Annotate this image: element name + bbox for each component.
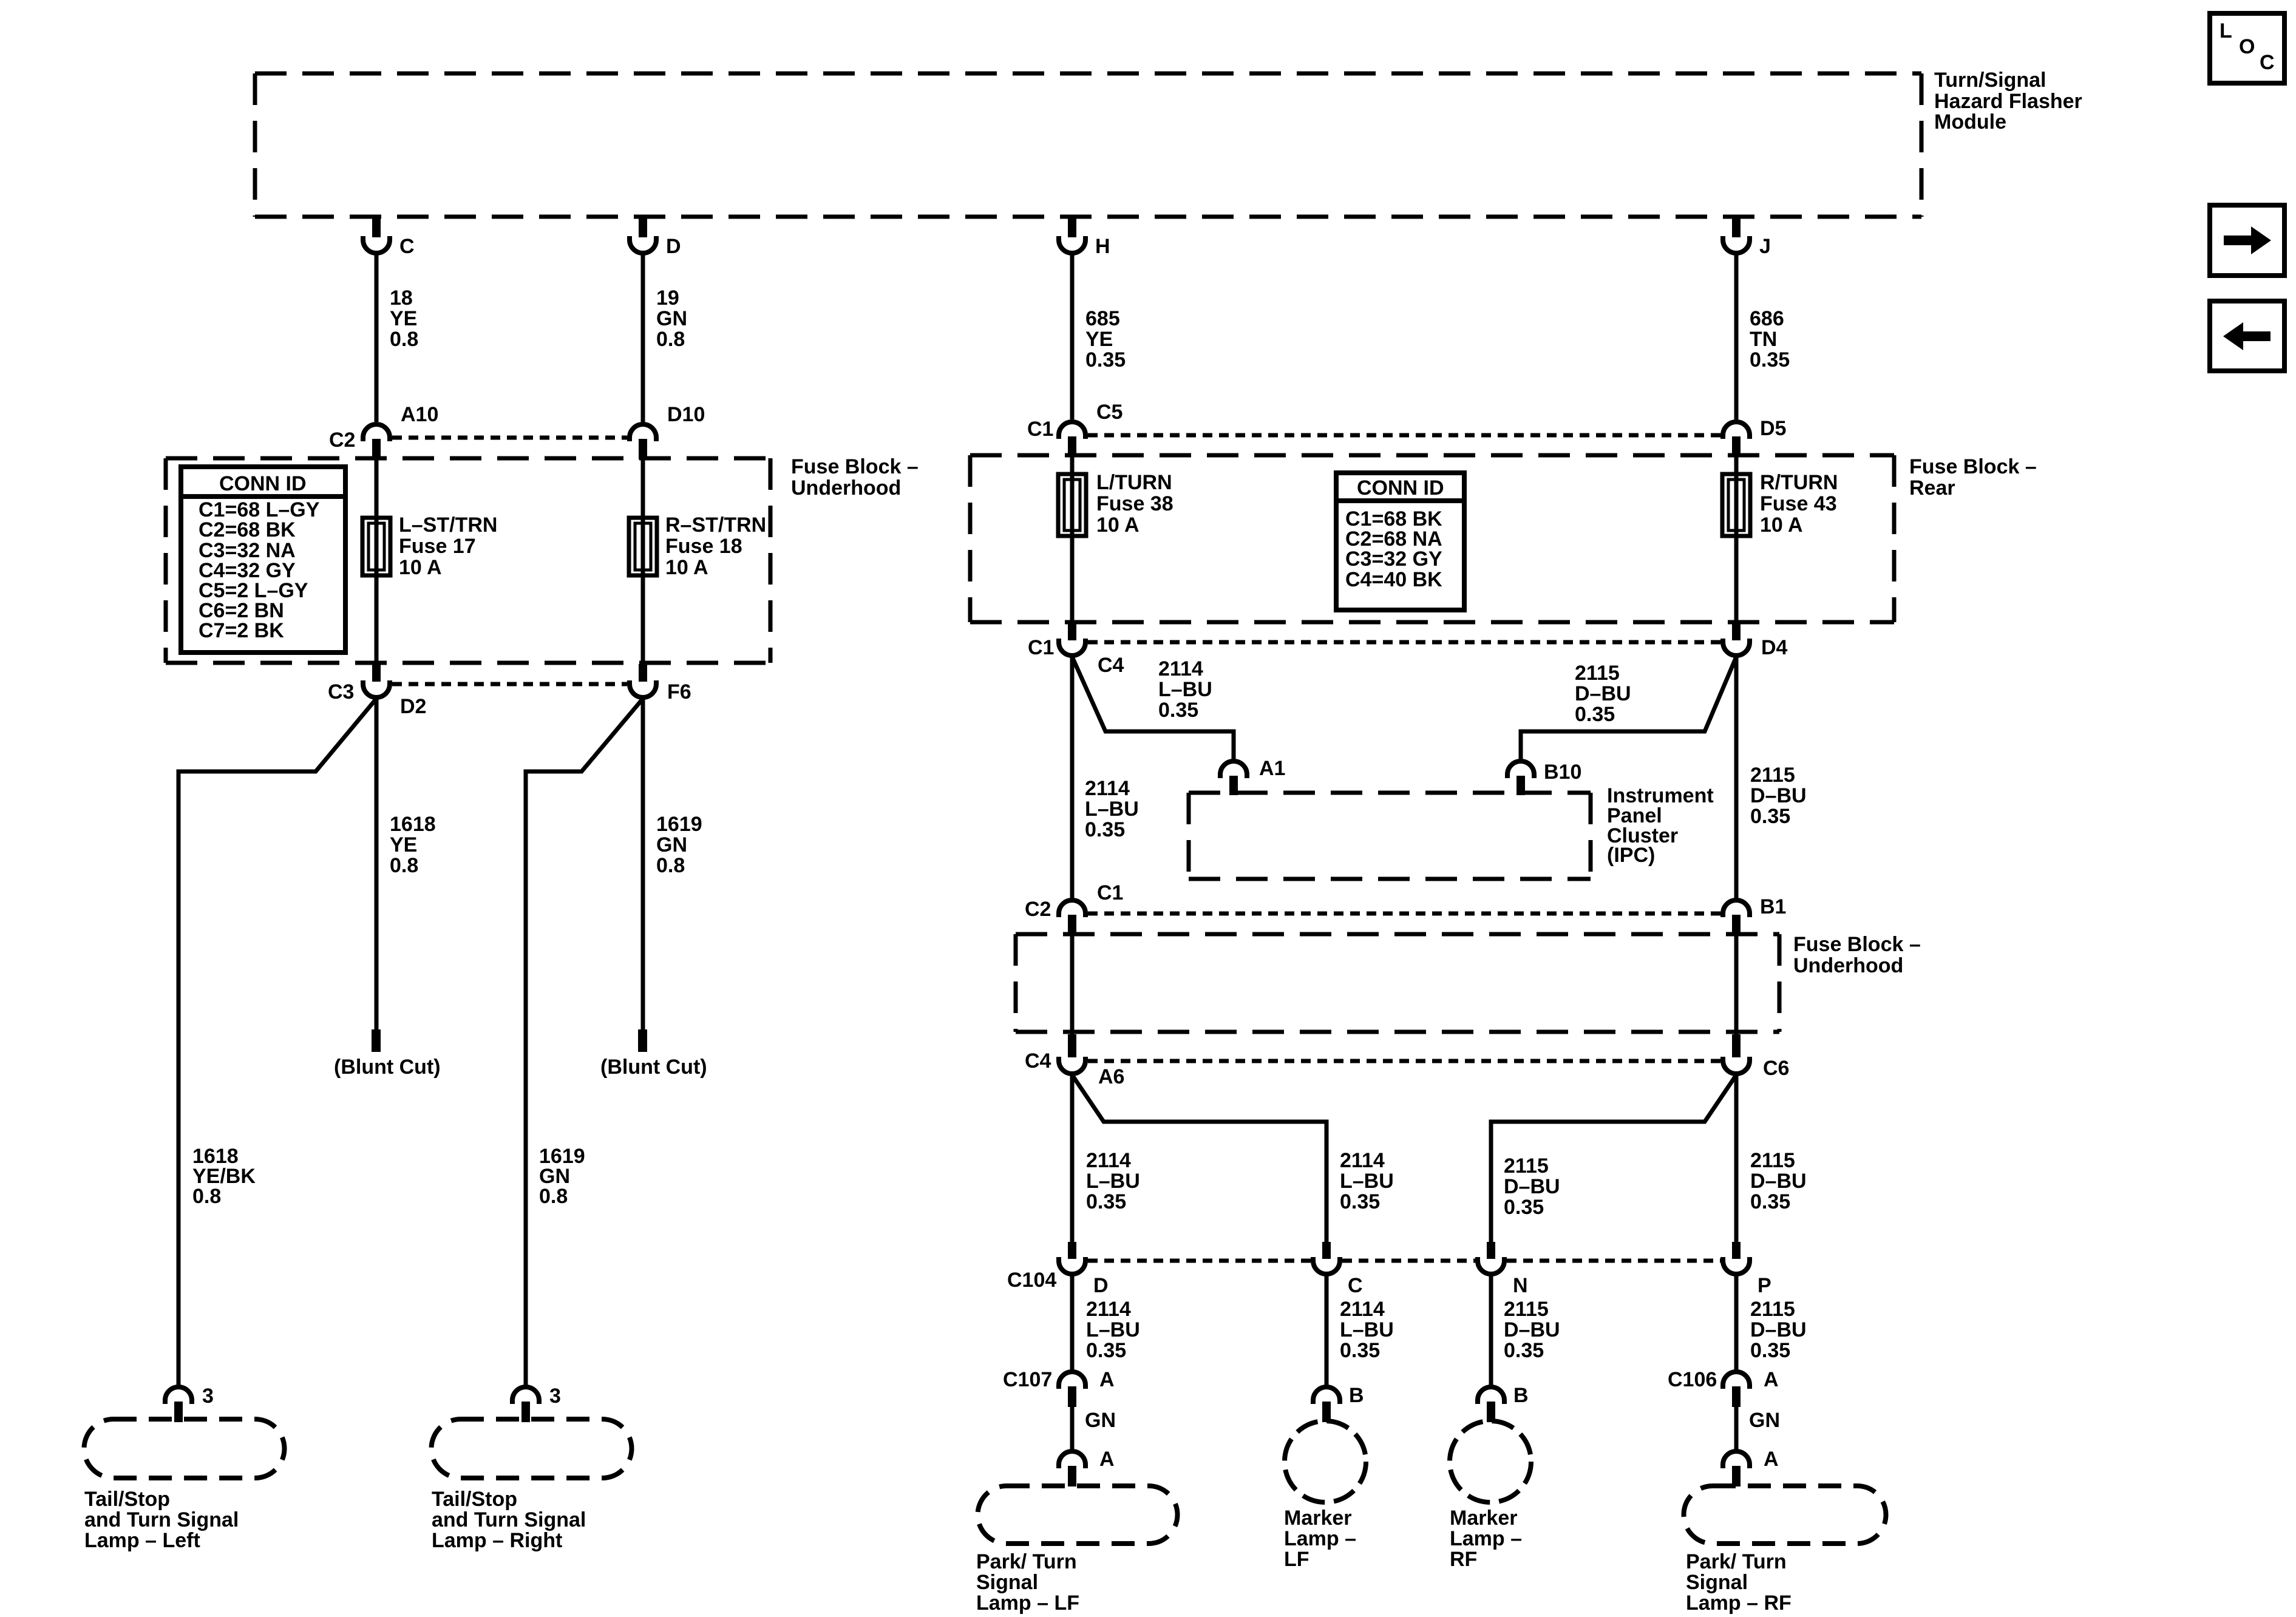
- wire into fuse 17: [375, 459, 379, 518]
- wire into fuse 43: [1734, 457, 1739, 474]
- svg-text:D: D: [1093, 1274, 1109, 1297]
- CONN ID table right: [1336, 473, 1464, 610]
- svg-text:2114: 2114: [1340, 1298, 1385, 1321]
- svg-text:Fuse 18: Fuse 18: [665, 535, 742, 558]
- svg-text:Lamp – LF: Lamp – LF: [976, 1592, 1079, 1615]
- svg-text:Marker: Marker: [1284, 1507, 1352, 1530]
- LOC box: [2210, 13, 2284, 83]
- svg-text:B: B: [1513, 1384, 1529, 1407]
- svg-text:C107: C107: [1003, 1368, 1052, 1391]
- svg-text:0.35: 0.35: [1750, 348, 1790, 371]
- svg-text:D2: D2: [400, 695, 426, 718]
- connector H at module: [1059, 217, 1110, 258]
- wire N column below row: [1489, 1275, 1493, 1386]
- svg-text:2115: 2115: [1575, 662, 1620, 685]
- svg-text:C: C: [2260, 51, 2275, 74]
- svg-text:C2=68 BK: C2=68 BK: [199, 518, 296, 541]
- svg-text:D–BU: D–BU: [1575, 682, 1631, 705]
- svg-text:Fuse Block –: Fuse Block –: [1909, 455, 2037, 478]
- connector C6: [1723, 1034, 1789, 1080]
- svg-text:0.35: 0.35: [1750, 1339, 1790, 1362]
- svg-text:YE: YE: [390, 307, 417, 330]
- svg-text:GN: GN: [656, 307, 687, 330]
- arrow box right: [2210, 205, 2284, 276]
- svg-text:D10: D10: [667, 403, 705, 426]
- svg-text:Park/ Turn: Park/ Turn: [1686, 1550, 1787, 1573]
- svg-text:C: C: [1348, 1274, 1363, 1297]
- connector C1/C5: [1027, 401, 1123, 457]
- tail/stop lamp right dashed outline: [431, 1419, 631, 1478]
- svg-text:685: 685: [1085, 307, 1120, 330]
- svg-text:L–BU: L–BU: [1158, 678, 1212, 701]
- svg-text:C1: C1: [1027, 418, 1053, 441]
- svg-text:A: A: [1099, 1448, 1115, 1471]
- connector D4: [1723, 624, 1788, 659]
- connector N: [1478, 1242, 1528, 1297]
- svg-text:C: C: [399, 235, 415, 258]
- connector row C4/A6-C6 dotted line: [1088, 1059, 1720, 1063]
- connector row C1/C5-D5 dotted line: [1088, 433, 1720, 438]
- connector C1/C4: [1028, 624, 1124, 677]
- wire 2115 D-BU to B10: [1521, 657, 1736, 760]
- svg-text:YE: YE: [390, 833, 417, 856]
- svg-text:Fuse 43: Fuse 43: [1760, 492, 1837, 515]
- fuse 43 R/TURN: [1722, 471, 1838, 537]
- wire 2114 L-BU split to marker LF: [1072, 1075, 1326, 1243]
- connector P: [1723, 1242, 1771, 1297]
- svg-text:2114: 2114: [1340, 1149, 1385, 1172]
- svg-text:C4: C4: [1025, 1049, 1051, 1073]
- svg-text:(IPC): (IPC): [1607, 844, 1655, 867]
- svg-text:L–BU: L–BU: [1085, 798, 1139, 821]
- svg-text:C6: C6: [1763, 1057, 1789, 1080]
- svg-text:0.8: 0.8: [390, 328, 418, 351]
- connector A left lamp: [1059, 1448, 1115, 1486]
- wire 2114 L-BU down H column: [1070, 657, 1075, 899]
- fuse 38 L/TURN: [1058, 471, 1173, 537]
- svg-text:R/TURN: R/TURN: [1760, 471, 1838, 494]
- svg-text:GN: GN: [1749, 1409, 1780, 1432]
- connector B marker LF: [1313, 1384, 1364, 1422]
- svg-text:YE: YE: [1085, 328, 1113, 351]
- svg-text:Lamp – RF: Lamp – RF: [1686, 1592, 1792, 1615]
- svg-text:D5: D5: [1760, 417, 1786, 440]
- connector D10: [630, 403, 705, 459]
- svg-text:C1: C1: [1097, 881, 1123, 904]
- svg-text:0.35: 0.35: [1158, 699, 1198, 722]
- svg-text:Marker: Marker: [1450, 1507, 1518, 1530]
- park/turn signal lamp LF dashed outline: [978, 1486, 1178, 1544]
- svg-text:0.35: 0.35: [1750, 805, 1790, 828]
- svg-text:0.35: 0.35: [1085, 818, 1125, 841]
- svg-text:(Blunt Cut): (Blunt Cut): [600, 1056, 707, 1079]
- svg-text:10 A: 10 A: [1760, 514, 1803, 537]
- svg-text:0.8: 0.8: [656, 854, 685, 877]
- connector row C2/A10 dotted line: [392, 436, 627, 440]
- svg-text:C2: C2: [1025, 898, 1051, 921]
- svg-text:Rear: Rear: [1909, 476, 1955, 500]
- svg-text:RF: RF: [1450, 1548, 1477, 1571]
- blunt cut stub left: [372, 1029, 381, 1052]
- svg-text:C5: C5: [1096, 401, 1123, 424]
- svg-text:3: 3: [202, 1385, 214, 1408]
- svg-text:0.35: 0.35: [1086, 1190, 1126, 1213]
- svg-text:2114: 2114: [1086, 1149, 1131, 1172]
- module Turn/Signal Hazard Flasher dashed box: [255, 73, 1921, 217]
- svg-text:C4: C4: [1098, 654, 1124, 677]
- connector D at module: [630, 217, 681, 258]
- connector row C3/F6 dotted line: [392, 682, 627, 686]
- connector B marker RF: [1478, 1384, 1529, 1422]
- wire 18 YE 0.8: [375, 254, 379, 422]
- svg-text:C3: C3: [328, 680, 354, 703]
- wire 19 GN 0.8: [641, 254, 645, 422]
- fuse block underhood 2 dashed box: [1016, 934, 1779, 1032]
- wire C column below row: [1325, 1275, 1329, 1386]
- wire into fuse 38: [1070, 457, 1075, 474]
- wire below fuse 17: [375, 575, 379, 663]
- svg-text:C1: C1: [1028, 636, 1054, 659]
- wire GN right: [1734, 1407, 1739, 1450]
- svg-text:0.8: 0.8: [192, 1185, 221, 1208]
- svg-text:O: O: [2239, 35, 2255, 58]
- svg-text:B1: B1: [1760, 895, 1786, 918]
- svg-text:H: H: [1095, 235, 1110, 258]
- svg-text:L–BU: L–BU: [1086, 1170, 1140, 1193]
- svg-text:L–BU: L–BU: [1340, 1318, 1394, 1341]
- svg-text:2115: 2115: [1750, 1298, 1795, 1321]
- wire P column below row: [1734, 1275, 1739, 1371]
- wire D column below C104: [1070, 1275, 1075, 1371]
- svg-text:D–BU: D–BU: [1504, 1318, 1560, 1341]
- svg-text:2115: 2115: [1504, 1298, 1549, 1321]
- svg-text:P: P: [1758, 1274, 1771, 1297]
- marker lamp RF dashed circle: [1450, 1421, 1531, 1502]
- svg-text:Lamp –: Lamp –: [1284, 1527, 1356, 1550]
- wire below fuse 18: [641, 575, 645, 663]
- svg-text:L–BU: L–BU: [1086, 1318, 1140, 1341]
- svg-text:2114: 2114: [1158, 657, 1203, 680]
- wire through underhood block left: [1070, 935, 1075, 1034]
- wire 2115 D-BU down J column: [1734, 657, 1739, 899]
- svg-text:A1: A1: [1259, 757, 1285, 780]
- svg-text:Hazard Flasher: Hazard Flasher: [1934, 90, 2082, 113]
- connector C4/A6: [1025, 1034, 1124, 1088]
- svg-text:Signal: Signal: [1686, 1571, 1748, 1594]
- connector J at module: [1723, 217, 1771, 258]
- connector row C104 dotted line: [1088, 1259, 1720, 1263]
- svg-text:and Turn Signal: and Turn Signal: [432, 1508, 586, 1531]
- svg-text:2115: 2115: [1504, 1154, 1549, 1178]
- svg-text:A: A: [1099, 1368, 1115, 1391]
- svg-text:0.35: 0.35: [1504, 1339, 1544, 1362]
- svg-text:L–ST/TRN: L–ST/TRN: [399, 514, 497, 537]
- instrument panel cluster dashed box: [1189, 793, 1591, 879]
- svg-text:Fuse 17: Fuse 17: [399, 535, 476, 558]
- svg-text:and Turn Signal: and Turn Signal: [84, 1508, 239, 1531]
- svg-text:0.35: 0.35: [1340, 1190, 1380, 1213]
- connector C107/A: [1003, 1368, 1115, 1407]
- park/turn signal lamp RF dashed outline: [1684, 1486, 1886, 1544]
- connector C2/C1: [1025, 881, 1123, 935]
- connector B10: [1507, 761, 1581, 795]
- wire through underhood block right: [1734, 935, 1739, 1034]
- connector F6: [630, 664, 691, 703]
- svg-text:Tail/Stop: Tail/Stop: [432, 1488, 517, 1511]
- svg-text:2114: 2114: [1085, 777, 1130, 800]
- fuse block rear dashed box: [970, 455, 1894, 622]
- svg-text:D: D: [666, 235, 681, 258]
- svg-text:Fuse Block –: Fuse Block –: [1793, 933, 1921, 956]
- svg-text:L/TURN: L/TURN: [1096, 471, 1172, 494]
- svg-text:0.35: 0.35: [1085, 348, 1126, 371]
- connector 3 right tail lamp: [512, 1385, 561, 1422]
- wire 686 TN 0.35: [1734, 254, 1739, 419]
- svg-text:0.35: 0.35: [1504, 1196, 1544, 1219]
- connector B1: [1723, 895, 1786, 935]
- svg-text:3: 3: [549, 1385, 561, 1408]
- svg-text:686: 686: [1750, 307, 1784, 330]
- svg-text:A10: A10: [401, 403, 438, 426]
- svg-text:Signal: Signal: [976, 1571, 1038, 1594]
- svg-text:Lamp –: Lamp –: [1450, 1527, 1522, 1550]
- wire 2115 D-BU down to P: [1734, 1075, 1739, 1243]
- svg-text:0.8: 0.8: [390, 854, 418, 877]
- svg-text:L: L: [2220, 19, 2232, 42]
- svg-text:Module: Module: [1934, 110, 2006, 134]
- svg-text:10 A: 10 A: [665, 556, 708, 579]
- tail/stop lamp left dashed outline: [84, 1419, 285, 1478]
- svg-text:D–BU: D–BU: [1750, 1318, 1807, 1341]
- connector C: [1313, 1242, 1363, 1297]
- marker lamp LF dashed circle: [1285, 1421, 1366, 1502]
- connector C104/D: [1007, 1242, 1109, 1297]
- svg-text:Tail/Stop: Tail/Stop: [84, 1488, 170, 1511]
- svg-text:A: A: [1764, 1368, 1779, 1391]
- wire 2114 L-BU down to C104: [1070, 1075, 1075, 1243]
- svg-text:19: 19: [656, 286, 679, 310]
- svg-text:Park/ Turn: Park/ Turn: [976, 1550, 1077, 1573]
- wire 1618 YE 0.8 to blunt cut: [375, 699, 379, 1031]
- connector D5: [1723, 417, 1786, 457]
- svg-text:2115: 2115: [1750, 764, 1795, 787]
- svg-text:C2: C2: [329, 429, 355, 452]
- svg-text:D4: D4: [1761, 636, 1788, 659]
- svg-text:A6: A6: [1098, 1065, 1124, 1088]
- wire 2114 L-BU to A1: [1072, 657, 1234, 760]
- svg-text:0.8: 0.8: [539, 1185, 568, 1208]
- wire GN left: [1070, 1407, 1075, 1450]
- svg-text:J: J: [1759, 235, 1771, 258]
- wire 1619 GN 0.8 to blunt cut: [641, 699, 645, 1031]
- svg-text:TN: TN: [1750, 328, 1777, 351]
- svg-text:D–BU: D–BU: [1750, 1170, 1807, 1193]
- svg-text:0.35: 0.35: [1086, 1339, 1126, 1362]
- svg-text:1618: 1618: [390, 813, 436, 836]
- svg-text:CONN ID: CONN ID: [1357, 476, 1444, 500]
- svg-text:F6: F6: [667, 680, 691, 703]
- svg-text:Fuse Block –: Fuse Block –: [791, 455, 919, 478]
- connector C2/A10: [329, 403, 438, 459]
- svg-text:10 A: 10 A: [399, 556, 442, 579]
- svg-text:GN: GN: [1085, 1409, 1116, 1432]
- svg-text:C106: C106: [1668, 1368, 1717, 1391]
- svg-text:2114: 2114: [1086, 1298, 1131, 1321]
- connector C106/A: [1668, 1368, 1779, 1407]
- wire 1618 YE/BK to left tail lamp: [178, 699, 376, 1386]
- svg-text:2115: 2115: [1750, 1149, 1795, 1172]
- svg-text:B10: B10: [1544, 761, 1581, 784]
- blunt cut stub right: [638, 1029, 647, 1052]
- svg-text:LF: LF: [1284, 1548, 1309, 1571]
- svg-text:0.35: 0.35: [1750, 1190, 1790, 1213]
- svg-text:R–ST/TRN: R–ST/TRN: [665, 514, 766, 537]
- fuse block underhood dashed box: [166, 458, 770, 663]
- fuse 18: [629, 514, 766, 579]
- svg-text:C4=40 BK: C4=40 BK: [1345, 568, 1442, 591]
- connector A right lamp: [1723, 1448, 1779, 1486]
- svg-text:Underhood: Underhood: [1793, 954, 1903, 977]
- svg-text:C104: C104: [1007, 1269, 1056, 1292]
- svg-text:N: N: [1513, 1274, 1528, 1297]
- connector row C2/C1-B1 dotted line: [1088, 912, 1720, 916]
- wire below fuse 43: [1734, 536, 1739, 623]
- svg-text:D–BU: D–BU: [1750, 784, 1807, 807]
- wire into fuse 18: [641, 459, 645, 518]
- connector A1: [1220, 757, 1285, 795]
- connector C3/D2: [328, 664, 426, 718]
- fuse 17: [362, 514, 497, 579]
- svg-text:A: A: [1764, 1448, 1779, 1471]
- svg-text:18: 18: [390, 286, 413, 310]
- arrow box left: [2210, 301, 2284, 371]
- svg-text:Lamp – Left: Lamp – Left: [84, 1529, 200, 1552]
- svg-text:0.8: 0.8: [656, 328, 685, 351]
- connector 3 left tail lamp: [165, 1385, 214, 1422]
- svg-text:(Blunt Cut): (Blunt Cut): [334, 1056, 441, 1079]
- svg-text:C7=2 BK: C7=2 BK: [199, 619, 284, 642]
- svg-text:GN: GN: [656, 833, 687, 856]
- connector row C1/C4-D4 dotted line: [1088, 640, 1720, 645]
- svg-text:C3=32 GY: C3=32 GY: [1345, 547, 1442, 571]
- connector C at module: [363, 217, 415, 258]
- svg-text:0.35: 0.35: [1575, 703, 1615, 726]
- wire 2115 D-BU split to marker RF: [1491, 1075, 1736, 1243]
- wire 685 YE 0.35: [1070, 254, 1075, 419]
- wire 1619 GN to right tail lamp: [526, 699, 643, 1386]
- svg-text:Turn/Signal: Turn/Signal: [1934, 69, 2046, 92]
- svg-text:1619: 1619: [656, 813, 702, 836]
- svg-text:CONN ID: CONN ID: [219, 472, 307, 495]
- svg-text:B: B: [1349, 1384, 1364, 1407]
- svg-text:Underhood: Underhood: [791, 476, 901, 500]
- svg-text:Lamp – Right: Lamp – Right: [432, 1529, 562, 1552]
- svg-text:D–BU: D–BU: [1504, 1175, 1560, 1198]
- svg-text:0.35: 0.35: [1340, 1339, 1380, 1362]
- CONN ID table left: [181, 467, 345, 653]
- svg-text:10 A: 10 A: [1096, 514, 1140, 537]
- svg-text:L–BU: L–BU: [1340, 1170, 1394, 1193]
- wire below fuse 38: [1070, 536, 1075, 623]
- svg-text:Fuse 38: Fuse 38: [1096, 492, 1173, 515]
